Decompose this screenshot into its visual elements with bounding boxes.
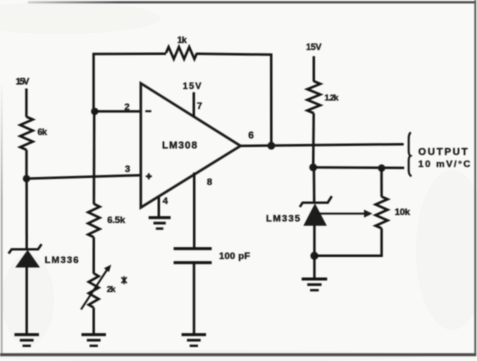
svg-text:4: 4 (163, 196, 169, 207)
svg-text:15V: 15V (306, 42, 322, 52)
wire feedback top right segment (197, 54, 271, 146)
node C junction dot (feedback to output) (267, 142, 275, 150)
svg-text:100 pF: 100 pF (219, 251, 250, 262)
svg-text:8: 8 (207, 177, 212, 188)
node E junction dot (10k top) (378, 164, 385, 171)
wire node B down to divider (93, 111, 96, 204)
svg-text:1k: 1k (177, 35, 187, 45)
ground (cap) (182, 333, 207, 336)
wire LM336 to ground (25, 267, 28, 336)
wire 1.2k to sensor node (312, 113, 315, 168)
temperature sensor LM335 (300, 196, 332, 207)
svg-text:LM308: LM308 (162, 140, 197, 151)
wire pin4 stub (158, 197, 161, 218)
ground (sensor) (302, 278, 328, 281)
op-amp minus sign (145, 110, 151, 112)
svg-text:15V: 15V (16, 77, 30, 87)
potentiometer 2k (89, 273, 99, 307)
wire LM335 to node F (313, 225, 316, 256)
output bracket (409, 132, 412, 176)
resistor R 1k (feedback) (166, 47, 197, 59)
wire node A to LM336 (25, 179, 28, 250)
wire non-inverting input line (27, 175, 141, 178)
svg-text:15V: 15V (183, 81, 202, 91)
svg-text:6: 6 (248, 131, 254, 142)
resistor 6.5k (88, 204, 100, 237)
potentiometer 10k (376, 197, 388, 229)
capacitor 100 pF (174, 247, 212, 250)
wire op-amp output line (241, 144, 404, 146)
wire node F to ground (313, 256, 316, 280)
svg-text:LM335: LM335 (266, 213, 301, 224)
svg-text:2: 2 (124, 102, 129, 113)
ground (left) (14, 333, 39, 336)
svg-text:7: 7 (197, 101, 202, 112)
wire 6k to node A (25, 150, 28, 179)
svg-text:1.2k: 1.2k (325, 92, 339, 102)
wire cap to ground (193, 263, 196, 335)
svg-text:2k: 2k (107, 284, 116, 294)
label asterisk (121, 277, 126, 283)
node F junction dot (310, 252, 318, 260)
page border left (0, 0, 1, 1)
svg-text:10k: 10k (395, 207, 411, 218)
wire node D to LM335 (313, 167, 316, 203)
ground (divider) (81, 333, 106, 336)
op-amp U1 LM308 (141, 83, 241, 207)
zener diode LM336 (9, 244, 42, 253)
page border bottom (0, 353, 476, 356)
wire pin7 stub (193, 92, 196, 117)
op-amp plus sign (146, 175, 152, 177)
node D junction dot (sensor node) (309, 164, 317, 172)
wire 10k to node F (314, 228, 381, 256)
wire node E to 10k (380, 168, 383, 197)
wire 15V to R 6k (25, 89, 28, 118)
wire pin8 stub (193, 173, 196, 249)
wire 6.5k to 2k (92, 237, 95, 273)
wire feedback top left segment (94, 54, 166, 112)
wire sensor output line (313, 166, 404, 169)
svg-text:6k: 6k (38, 127, 48, 137)
resistor 6k (20, 117, 33, 150)
resistor 1.2k (307, 81, 320, 113)
wire pin2 stub (95, 110, 141, 113)
arrow of 2k potentiometer (81, 270, 107, 310)
page border right (474, 0, 476, 356)
svg-text:LM336: LM336 (45, 255, 79, 266)
svg-text:6.5k: 6.5k (107, 215, 126, 226)
page border top (0, 0, 1, 1)
svg-text:10 mV/°C: 10 mV/°C (418, 159, 470, 170)
svg-text:3: 3 (125, 164, 130, 175)
node B junction dot (inverting input) (91, 108, 98, 115)
LM335 adjust arrow to 10k wiper (317, 213, 367, 215)
wire 2k to ground (92, 308, 95, 335)
ground (pin 4) (149, 216, 171, 219)
wire 15V to R 1.2k (313, 56, 316, 81)
node A junction dot (23, 175, 30, 182)
